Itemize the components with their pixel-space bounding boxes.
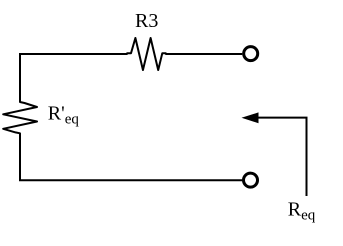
svg-text:Req: Req	[288, 199, 316, 224]
svg-text:R'eq: R'eq	[48, 103, 80, 128]
svg-text:R3: R3	[135, 10, 158, 32]
